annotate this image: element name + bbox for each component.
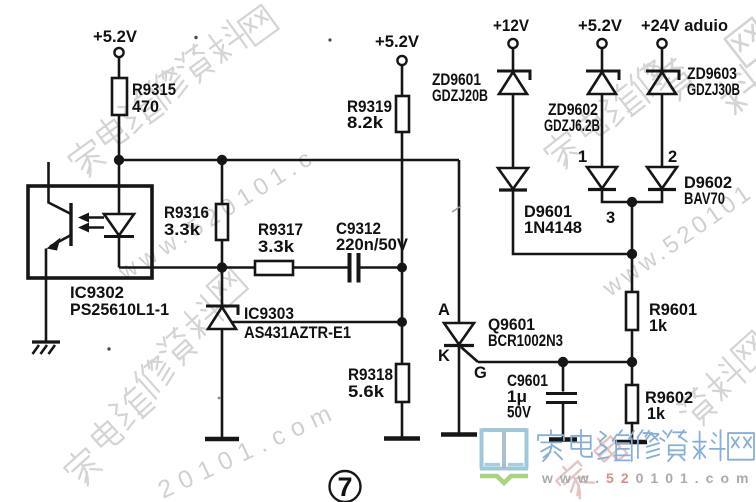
thyristor cathode bar	[444, 344, 474, 347]
zener ZD9601 bar with hook	[497, 71, 530, 80]
svg-text:+5.2V: +5.2V	[578, 17, 622, 35]
terminal +5.2V T1	[114, 48, 123, 57]
wire pin2 to node3	[632, 190, 662, 203]
wire bus corner down to thyristor anode	[458, 160, 461, 323]
thyristor Q9601 triangle	[444, 323, 474, 345]
svg-text:470: 470	[132, 98, 159, 116]
svg-text:AS431AZTR-E1: AS431AZTR-E1	[244, 324, 351, 342]
zener ZD9602 bar with hook	[586, 71, 619, 80]
optocoupler box IC9302	[28, 186, 152, 278]
svg-text:K: K	[438, 347, 450, 365]
node junction gate/R9601	[627, 357, 637, 367]
svg-text:G: G	[474, 364, 487, 382]
svg-text:R9317: R9317	[258, 221, 303, 239]
svg-text:7: 7	[337, 472, 352, 502]
svg-text:5.6k: 5.6k	[348, 383, 385, 401]
node junction row/R9319 line	[397, 263, 407, 273]
svg-text:IC9302: IC9302	[70, 284, 124, 302]
ground R9318	[384, 436, 420, 441]
node junction 3	[627, 197, 637, 207]
terminal +5.2V T2	[397, 56, 406, 65]
wire R9315 to node	[118, 115, 121, 160]
terminal +5.2V T4	[597, 39, 606, 48]
wire node to R9601	[631, 254, 634, 292]
zener ZD9601 triangle	[499, 72, 527, 94]
light arrow 1	[87, 216, 104, 219]
wire R9316 to row	[221, 240, 224, 268]
node junction ref/divider	[397, 317, 407, 327]
LED of optocoupler	[104, 214, 134, 236]
watermark hanzi line right-top	[541, 18, 756, 172]
zener ZD9602 triangle	[588, 72, 616, 94]
diode D9602 pin1	[587, 167, 617, 189]
svg-text:GDZJ6.2B: GDZJ6.2B	[544, 117, 600, 135]
watermark hanzi line top-left	[65, 5, 279, 180]
svg-text:GDZJ30B: GDZJ30B	[687, 81, 740, 99]
node junction D9601/R9601	[627, 249, 637, 259]
node junction bus/R9316	[217, 155, 227, 165]
book icon page bottoms	[485, 463, 524, 466]
wire T1 to R9315	[118, 57, 121, 78]
wire R9602 to ground	[631, 423, 634, 442]
wire R9319 down through bus crossing to R9318	[401, 133, 404, 364]
resistor R9316	[216, 204, 228, 240]
watermark hanzi line bottom-right	[674, 331, 756, 432]
resistor R9602	[626, 385, 638, 423]
wire T5 to ZD9603	[661, 48, 664, 71]
LED anode wire	[118, 160, 121, 214]
wire row left segment from optocoupler	[119, 266, 255, 269]
book icon outer frame	[480, 429, 528, 469]
book icon green base	[480, 476, 528, 483]
wire R9601 to gate node	[631, 330, 634, 362]
svg-text:3: 3	[606, 209, 615, 227]
svg-text:BAV70: BAV70	[684, 190, 725, 208]
svg-text:2: 2	[668, 148, 677, 166]
svg-text:PS25610L1-1: PS25610L1-1	[70, 301, 169, 319]
wire T2 to R9319	[401, 65, 404, 96]
svg-text:+24V aduio: +24V aduio	[641, 17, 728, 35]
svg-text:R9315: R9315	[132, 81, 176, 99]
scan speck dots	[328, 38, 331, 41]
IC9303 anode wire to ground	[221, 268, 224, 438]
node junction R9316/row	[217, 262, 227, 272]
ground R9602	[615, 440, 647, 445]
resistor R9318	[396, 364, 409, 402]
shunt regulator IC9303: cathode bar with hook	[206, 306, 238, 315]
resistor R9315	[112, 78, 127, 115]
svg-text:8.2k: 8.2k	[347, 114, 384, 132]
wire R9318 to ground	[401, 402, 404, 437]
wire horizontal bus y=160	[119, 159, 459, 162]
resistor R9317	[255, 261, 293, 275]
wire R9317 to C9312	[293, 266, 348, 269]
svg-text:+12V: +12V	[493, 17, 529, 35]
thyristor gate diagonal	[461, 347, 478, 362]
wire ZD9603 to D9602 pin2	[661, 94, 664, 167]
emitter wire down	[45, 249, 48, 343]
svg-text:BCR1002N3: BCR1002N3	[488, 332, 563, 350]
wire C9312 to node	[359, 266, 403, 269]
svg-text:+5.2V: +5.2V	[375, 33, 419, 51]
svg-text:3.3k: 3.3k	[164, 221, 201, 239]
watermark hanzi line bottom-left	[61, 267, 248, 489]
terminal +24V T5	[657, 39, 666, 48]
thyristor cathode wire to ground	[458, 346, 461, 434]
svg-text:A: A	[438, 301, 450, 319]
ground IC9303	[205, 437, 239, 442]
svg-text:50V: 50V	[507, 404, 531, 422]
svg-text:R9316: R9316	[164, 204, 209, 222]
resistor R9601	[626, 292, 638, 330]
chassis ground	[32, 340, 60, 343]
svg-text:www.520101.com: www.520101.com	[541, 470, 755, 486]
zener ZD9603 triangle	[648, 72, 676, 94]
circled 7	[330, 471, 361, 502]
diode D9602 pin2	[647, 167, 677, 189]
ground Q9601	[441, 432, 477, 437]
terminal +12V T3	[508, 39, 517, 48]
resistor R9319	[396, 96, 409, 132]
wire gate node to R9602	[631, 362, 634, 385]
svg-text:IC9303: IC9303	[244, 305, 294, 323]
wire node3 down	[631, 202, 634, 254]
capacitor C9312	[350, 253, 359, 283]
IC9303 triangle	[208, 307, 236, 329]
wire ZD9602 to D9602 pin1	[601, 94, 604, 167]
svg-text:GDZJ20B: GDZJ20B	[432, 87, 488, 105]
phototransistor emitter	[50, 235, 71, 247]
svg-text:3.3k: 3.3k	[258, 238, 295, 256]
zener ZD9603 bar with hook	[646, 71, 679, 80]
diode D9601	[498, 168, 528, 189]
wire D9601 down and right	[513, 190, 632, 254]
wire T4 to ZD9602	[601, 48, 604, 71]
gate wire to R9601/R9602 node	[478, 361, 632, 364]
LED cathode wire	[118, 237, 121, 268]
wire bus to R9316	[221, 160, 224, 204]
svg-text:R9318: R9318	[348, 366, 393, 384]
book icon spine	[502, 431, 506, 469]
svg-text:1: 1	[578, 148, 587, 166]
IC9303 ref wire	[232, 321, 402, 324]
node junction gate/C9601	[558, 357, 568, 367]
wire T3 to ZD9601	[512, 48, 515, 71]
logo hanzi blue text	[538, 430, 754, 461]
phototransistor collector	[49, 162, 72, 214]
wire pin1 to node3	[602, 190, 632, 203]
svg-text:1k: 1k	[649, 317, 668, 335]
wire ZD9601 to D9601	[512, 94, 515, 168]
svg-text:1N4148: 1N4148	[524, 219, 582, 237]
svg-text:220n/50V: 220n/50V	[336, 236, 408, 254]
svg-text:1k: 1k	[647, 405, 666, 423]
node junction at R9315/bus/LED	[114, 155, 124, 165]
phototransistor base bar	[69, 203, 72, 246]
watermark pink hanzi behind logo	[553, 431, 627, 502]
svg-text:+5.2V: +5.2V	[93, 28, 137, 46]
light arrow 2	[87, 226, 104, 229]
ground C9601	[549, 437, 577, 442]
capacitor C9601	[562, 362, 565, 392]
